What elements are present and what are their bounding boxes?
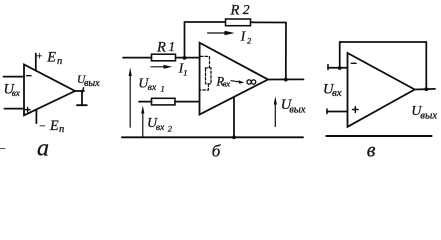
plus sign input a [25, 107, 30, 112]
svg-text:I: I [240, 28, 247, 43]
voltage arrow Uvx1 [129, 73, 131, 128]
svg-text:вых: вых [84, 78, 100, 89]
wire noninverting input v [327, 111, 348, 113]
resistor R1 [152, 54, 176, 61]
wire output b [268, 78, 304, 80]
svg-text:вх: вх [148, 82, 157, 93]
common lead from op-amp b to rail [233, 97, 235, 138]
svg-text:E: E [49, 118, 59, 134]
svg-text:вых: вых [420, 110, 437, 122]
svg-text:п: п [59, 124, 64, 135]
input terminal tick top v [327, 65, 329, 70]
wire output a [75, 90, 84, 92]
dashed input-resistance lead top [201, 56, 210, 67]
voltage arrow Uvx2 [142, 110, 144, 137]
svg-text:б: б [212, 141, 221, 159]
svg-text:вх: вх [332, 87, 342, 99]
node output v [424, 87, 428, 91]
feedback down wire v [425, 42, 427, 89]
node feedback junction v [338, 66, 342, 70]
feedback top wire left segment [185, 21, 226, 23]
output terminal tick a [82, 88, 84, 94]
wire inverting input a [4, 76, 25, 78]
svg-text:а: а [37, 136, 49, 160]
resistor R3 (lower unlabeled) [152, 98, 176, 105]
svg-text:вых: вых [289, 105, 306, 116]
resistor R2 [226, 19, 251, 26]
wire inverting input v [328, 67, 348, 69]
ground bar a [77, 104, 87, 106]
svg-text:п: п [57, 56, 62, 67]
feedback top wire v [340, 41, 427, 43]
wire inverting input b (upper) [123, 57, 200, 59]
svg-text:R: R [156, 39, 166, 55]
common rail v [326, 135, 431, 137]
svg-text:2: 2 [247, 35, 252, 45]
svg-text:в: в [367, 139, 376, 159]
negative supply lead -Ep [35, 109, 37, 123]
stray mark bottom left [0, 148, 5, 150]
feedback riser v [339, 42, 341, 68]
feedback top wire right segment [251, 21, 287, 23]
op-amp U1 (diagram a) triangle [24, 65, 75, 116]
svg-text:вх: вх [12, 88, 21, 98]
ground lead a [81, 92, 83, 105]
svg-text:–: – [39, 121, 46, 132]
feedback riser wire b [184, 22, 186, 58]
svg-text:1: 1 [183, 67, 187, 77]
arrow Rvx to infinity [231, 81, 240, 82]
wire noninverting input b (lower) [139, 101, 200, 103]
common rail b [122, 136, 303, 138]
svg-text:2: 2 [168, 123, 173, 133]
input terminal tick bottom v [326, 109, 328, 114]
label infinity [247, 80, 256, 84]
minus sign input a [27, 75, 31, 77]
current arrow I1 [151, 66, 168, 68]
svg-text:E: E [46, 50, 56, 66]
dashed input-resistance lead bottom [201, 84, 209, 90]
positive supply lead +Ep [35, 54, 37, 71]
minus sign input v [351, 62, 356, 64]
node output b [284, 78, 288, 82]
svg-text:1: 1 [168, 39, 175, 54]
node common rail junction [232, 135, 236, 139]
feedback down wire to output b [285, 23, 287, 80]
op-amp U3 (diagram v) triangle [348, 53, 415, 127]
svg-text:2: 2 [243, 2, 250, 17]
node feedback tap after R1 [183, 56, 187, 60]
plus sign input v [353, 107, 359, 113]
svg-text:вх: вх [223, 79, 231, 88]
svg-text:вх: вх [156, 122, 165, 133]
dashed resistor Rvx [206, 68, 212, 84]
op-amp U2 (diagram b) triangle [200, 43, 269, 115]
svg-text:R: R [230, 2, 240, 18]
wire noninverting input a [4, 108, 24, 110]
voltage arrow Uvyx b [274, 101, 276, 127]
svg-text:1: 1 [161, 84, 165, 94]
svg-text:+: + [36, 51, 43, 62]
current arrow I2 [208, 32, 229, 34]
wire output v [415, 88, 435, 91]
